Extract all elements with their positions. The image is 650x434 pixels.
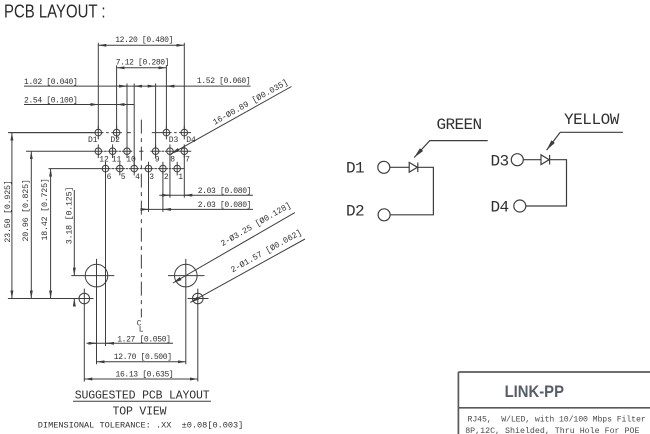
pad D1 — [95, 126, 102, 140]
dimension 2.03 second — [142, 208, 253, 210]
wire bottom pad row centerline — [49, 168, 185, 170]
diode D3-D4 yellow — [541, 155, 550, 165]
pad D4 — [181, 126, 188, 140]
mounting hole left big — [71, 259, 114, 364]
wire D3 to diode — [523, 159, 541, 161]
node D3 terminal circle — [511, 154, 523, 166]
svg-text:20.96 [0.825]: 20.96 [0.825] — [21, 179, 31, 241]
wire extension D2 up — [116, 65, 118, 129]
svg-text:9: 9 — [155, 156, 160, 165]
pad 2 — [160, 162, 167, 176]
wire extension pin8 down — [169, 155, 171, 198]
dimension 20.96 vertical — [30, 151, 32, 298]
svg-text:YELLOW: YELLOW — [564, 111, 620, 129]
svg-text:D4: D4 — [186, 136, 196, 145]
mounting hole left small — [8, 289, 94, 382]
pad 1 — [174, 162, 181, 176]
svg-text:SUGGESTED PCB LAYOUT: SUGGESTED PCB LAYOUT — [75, 390, 210, 403]
pad 10 — [124, 144, 131, 158]
dimension 7.12 — [117, 67, 167, 69]
svg-text:1.52 [0.060]: 1.52 [0.060] — [197, 77, 250, 86]
wire extension pin9 up — [155, 84, 157, 148]
mounting hole right small — [188, 289, 209, 382]
dimension 1.02 and 1.52 line — [24, 85, 251, 87]
svg-text:LINK-PP: LINK-PP — [505, 383, 564, 401]
svg-text:3: 3 — [149, 173, 154, 182]
svg-text:8: 8 — [170, 156, 175, 165]
svg-text:TOP VIEW: TOP VIEW — [113, 406, 167, 419]
text dims horizontal — [3, 36, 304, 430]
wire vertical centerline — [140, 120, 142, 318]
svg-text:1: 1 — [178, 173, 183, 182]
dimension 16.13 — [84, 378, 198, 380]
dimension 2.54 — [24, 104, 134, 106]
svg-text:RJ45, W/LED, with 10/100 Mbps: RJ45, W/LED, with 10/100 Mbps Filter — [468, 414, 646, 424]
svg-text:2.03 [0.080]: 2.03 [0.080] — [198, 187, 251, 196]
pad 7 — [181, 144, 188, 158]
node D1 terminal circle — [378, 161, 390, 173]
svg-text:5: 5 — [121, 173, 126, 182]
svg-text:16.13 [0.635]: 16.13 [0.635] — [116, 370, 174, 379]
dimension 23.50 vertical — [9, 132, 95, 134]
pad D2 — [113, 126, 120, 140]
svg-text:12.20 [0.480]: 12.20 [0.480] — [115, 36, 173, 45]
pad 12 — [95, 144, 102, 158]
svg-text:12: 12 — [99, 156, 109, 165]
leader 2-phi1.57 — [190, 239, 305, 302]
wire extension pin6 down — [105, 172, 107, 346]
svg-text:D1: D1 — [346, 160, 364, 178]
leader yellow — [547, 132, 623, 150]
dimension 12.20 — [98, 44, 184, 46]
wire extension D4 up — [183, 43, 185, 130]
pad D3 — [163, 126, 170, 140]
svg-text:18.42 [0.725]: 18.42 [0.725] — [40, 178, 50, 240]
dimension 18.42 vertical — [50, 169, 52, 299]
svg-text:2.54 [0.100]: 2.54 [0.100] — [24, 97, 77, 106]
wire extension D3 up — [165, 65, 167, 129]
dimension 3.18 vertical — [73, 190, 75, 276]
svg-text:D2: D2 — [346, 203, 364, 221]
svg-text:D2: D2 — [110, 136, 120, 145]
svg-text:1.27 [0.050]: 1.27 [0.050] — [117, 336, 170, 345]
pad 8 — [167, 144, 174, 158]
svg-text:10: 10 — [126, 156, 136, 165]
svg-text:11: 11 — [112, 156, 122, 165]
dimension 2.03 first — [159, 194, 253, 196]
svg-text:PCB LAYOUT :: PCB LAYOUT : — [4, 1, 106, 22]
svg-text:7.12 [0.280]: 7.12 [0.280] — [116, 59, 169, 68]
pad 5 — [117, 162, 124, 176]
wire D1 to diode — [390, 166, 409, 168]
svg-text:GREEN: GREEN — [437, 116, 482, 134]
wire diode to corner down to D4 — [526, 160, 567, 206]
wire top pad row centerline — [8, 132, 191, 134]
dimension 1.27 — [87, 342, 174, 344]
wire extension pin4 up — [133, 84, 135, 166]
schematic green led — [378, 132, 623, 221]
node D4 terminal circle — [514, 200, 526, 212]
title block — [458, 372, 650, 434]
svg-text:4: 4 — [135, 173, 140, 182]
wire extension pin3 down — [148, 172, 150, 212]
pad 6 — [102, 162, 109, 176]
svg-text:6: 6 — [107, 173, 112, 182]
pad 4 — [131, 162, 138, 176]
svg-text:8P,12C, Shielded, Thru Hole Fo: 8P,12C, Shielded, Thru Hole For POE — [465, 426, 639, 434]
svg-text:D4: D4 — [491, 199, 509, 217]
svg-text:2.03 [0.080]: 2.03 [0.080] — [198, 201, 251, 210]
underline suggested pcb layout — [73, 400, 211, 402]
pad 11 — [109, 144, 116, 158]
svg-text:DIMENSIONAL TOLERANCE: .XX ±0: DIMENSIONAL TOLERANCE: .XX ±0.08[0.003] — [38, 420, 243, 430]
pad 3 — [145, 162, 152, 176]
svg-text:3.18 [0.125]: 3.18 [0.125] — [65, 187, 75, 244]
svg-text:2: 2 — [164, 173, 169, 182]
svg-text:1.02 [0.040]: 1.02 [0.040] — [24, 78, 77, 87]
leader 2-phi3.25 — [173, 213, 295, 283]
wire diode to corner down to D2 — [390, 167, 433, 215]
wire extension pin7 down — [183, 155, 185, 198]
pad 9 — [152, 144, 159, 158]
dimension 12.70 — [97, 361, 186, 363]
svg-text:D1: D1 — [88, 136, 98, 145]
svg-text:23.50 [0.925]: 23.50 [0.925] — [3, 180, 13, 242]
mounting hole right big — [168, 259, 205, 364]
node D2 terminal circle — [378, 209, 390, 221]
wire middle pad row centerline — [26, 150, 191, 152]
svg-text:D3: D3 — [491, 153, 509, 171]
leader 16-phi0.89 — [171, 87, 292, 154]
wire extension pin10 up — [126, 84, 128, 148]
wire extension D1 up — [97, 43, 99, 130]
wire extension pin2 down — [162, 172, 164, 212]
leader green — [414, 141, 488, 158]
svg-text:7: 7 — [185, 156, 190, 165]
svg-text:L: L — [139, 326, 144, 335]
diode D1-D2 green — [409, 162, 418, 172]
svg-text:12.70 [0.500]: 12.70 [0.500] — [114, 353, 172, 362]
svg-text:D3: D3 — [169, 136, 179, 145]
